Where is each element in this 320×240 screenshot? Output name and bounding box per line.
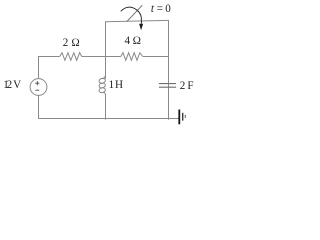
label 1 H	[109, 79, 115, 91]
inductor L1 coil exit curve	[103, 92, 105, 95]
inductor L1 coil loop 3	[99, 87, 106, 93]
ground bar 2	[182, 113, 184, 121]
wire between R2 and right rail	[143, 56, 169, 58]
wire left rail bottom (source down to bottom-left corner)	[38, 95, 40, 119]
voltage source plus sign	[35, 81, 39, 85]
inductor L1 coil entry curve	[103, 75, 105, 78]
wire middle vertical up and top wire of switch branch	[106, 20, 169, 56]
ground bar 3	[184, 115, 186, 118]
wire inductor bottom lead	[105, 95, 107, 120]
label t = 0	[151, 3, 154, 15]
inductor L1 coil loop 2	[99, 82, 106, 88]
resistor R1 2 ohm zigzag	[60, 53, 82, 61]
wire bottom rail	[38, 118, 179, 120]
capacitor C1 bottom plate	[159, 86, 176, 88]
label 4 ohm	[125, 35, 131, 47]
switch motion arc	[121, 7, 142, 23]
wire between R1 and middle node	[82, 56, 121, 58]
voltage source V1 circle	[30, 79, 47, 96]
voltage source minus sign	[35, 89, 39, 91]
resistor R2 4 ohm zigzag	[121, 53, 143, 61]
wire top-left segment	[38, 56, 60, 58]
label 2 F	[180, 80, 186, 92]
switch arrowhead	[139, 24, 143, 31]
ground bar 1	[178, 110, 180, 125]
label 12 V	[3, 79, 9, 91]
wire left rail top (top-left corner down to source)	[38, 56, 40, 79]
capacitor C1 top plate	[159, 83, 176, 85]
label 2 ohm	[63, 37, 69, 49]
wire right rail	[168, 20, 170, 119]
switch SW blade	[127, 5, 143, 22]
inductor L1 coil loop 1	[99, 78, 106, 84]
wire inductor top lead	[105, 57, 107, 79]
